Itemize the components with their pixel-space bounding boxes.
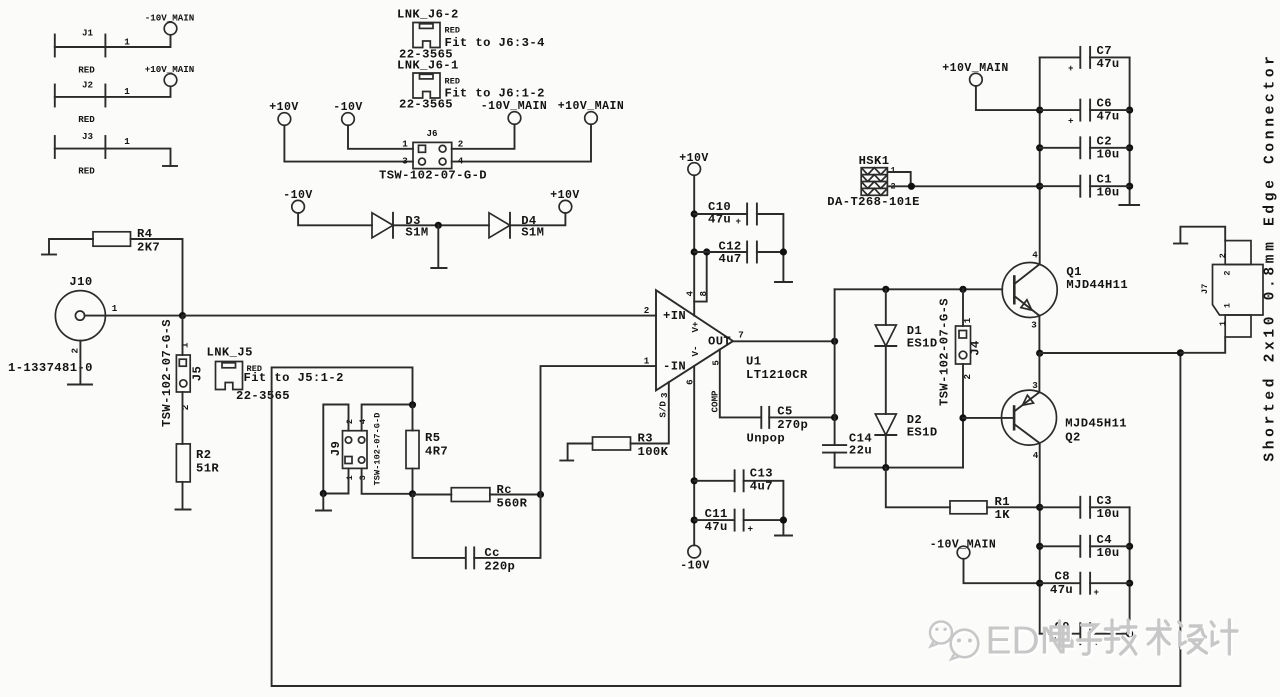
wire R4 left to ground [49, 239, 93, 254]
svg-text:47u: 47u [705, 520, 728, 534]
svg-text:2: 2 [1222, 270, 1232, 275]
svg-text:C8: C8 [1055, 570, 1070, 584]
svg-text:J9: J9 [329, 441, 343, 456]
svg-text:22-3565: 22-3565 [236, 389, 290, 403]
svg-text:1: 1 [124, 136, 130, 147]
svg-text:4R7: 4R7 [425, 445, 448, 459]
svg-text:RED: RED [445, 76, 461, 86]
svg-text:S1M: S1M [405, 226, 428, 240]
capacitor C8 47u [1040, 570, 1130, 598]
svg-text:+: + [736, 216, 742, 227]
ground (C1) [1119, 204, 1139, 206]
svg-text:Unpop: Unpop [747, 432, 786, 446]
svg-text:OUT: OUT [708, 335, 731, 349]
svg-text:4: 4 [358, 419, 368, 424]
diode D1 ES1D [875, 289, 937, 350]
wire J9 pin4 to R5 top [362, 405, 413, 431]
wire right cap bus (top) [1129, 57, 1131, 204]
connector J2 [55, 80, 106, 125]
svg-text:2: 2 [1218, 253, 1228, 258]
ground (J7) [1174, 243, 1187, 245]
wire HSK1 pin1 [887, 172, 910, 186]
diode D2 ES1D [875, 413, 937, 440]
node Rc right / feedback [537, 491, 544, 498]
svg-text:HSK1: HSK1 [859, 154, 890, 168]
svg-text:4: 4 [1033, 450, 1039, 461]
node J4 top [959, 286, 966, 293]
wire HSK1 pin2 [887, 185, 1039, 187]
svg-text:2K7: 2K7 [137, 241, 160, 255]
wire Cc right to node [474, 495, 540, 558]
node R5 top [409, 401, 416, 408]
svg-text:C5: C5 [777, 405, 792, 419]
connector J3 [55, 131, 106, 177]
svg-text:47u: 47u [1050, 583, 1073, 597]
svg-text:51R: 51R [196, 462, 219, 476]
wire R5 bottom to Rc [413, 494, 452, 496]
wire +IN net [183, 315, 657, 317]
node R5 bottom [409, 490, 416, 497]
svg-text:C11: C11 [705, 507, 728, 521]
svg-text:C4: C4 [1097, 533, 1112, 547]
capacitor C5 270p Unpop [747, 405, 809, 446]
svg-text:47u: 47u [1097, 110, 1120, 124]
svg-text:1: 1 [124, 86, 130, 97]
wire R5 vertical [412, 405, 414, 494]
svg-text:TSW-102-07-G-S: TSW-102-07-G-S [160, 319, 174, 427]
node J9 ground junction [320, 490, 327, 497]
svg-text:100K: 100K [638, 445, 669, 459]
svg-text:47u: 47u [1097, 57, 1120, 71]
wire Q2 collector to node [1038, 353, 1040, 392]
svg-text:RED: RED [78, 166, 95, 177]
wire node A to J5 pin1 [182, 316, 184, 355]
wire output node to J7 [1040, 352, 1181, 354]
resistor R5 4R7 [406, 431, 448, 469]
svg-text:LT1210CR: LT1210CR [746, 368, 808, 382]
node C8 right [1126, 580, 1133, 587]
wire J6 pin1 to -10V [348, 125, 413, 149]
svg-text:+10V_MAIN: +10V_MAIN [942, 62, 1009, 75]
svg-text:-10V_MAIN: -10V_MAIN [145, 13, 195, 24]
capacitor C13 4u7 [694, 467, 773, 494]
header J5 TSW-102-07-G-S [160, 319, 205, 427]
wire D4 cathode to +10V [510, 213, 565, 225]
resistor R2 51R [176, 444, 219, 482]
power port -10V (J6 pin1) [333, 101, 363, 125]
svg-text:1: 1 [962, 317, 973, 323]
resistor R1 1K [950, 495, 1010, 522]
wire pin8 V+ [694, 252, 707, 302]
svg-text:R5: R5 [425, 431, 440, 445]
ground (J10) [68, 384, 92, 386]
wire output top rail to Q1 base [835, 288, 1003, 290]
svg-text:C1: C1 [1097, 173, 1112, 187]
wire J2 pin 1 [55, 86, 171, 97]
node C12 left pin4 [691, 248, 698, 255]
wire Q2 base [963, 417, 1014, 419]
node R1/C3 [1036, 504, 1043, 511]
svg-text:U1: U1 [746, 355, 761, 369]
power port -10V_MAIN (J1) [145, 13, 195, 35]
svg-text:1: 1 [1222, 303, 1232, 308]
svg-text:Fit to J6:1-2: Fit to J6:1-2 [445, 87, 545, 101]
capacitor C4 10u [1040, 533, 1130, 560]
node C1 left [1036, 183, 1043, 190]
svg-text:RED: RED [78, 65, 95, 76]
header J9 TSW-102-07-G-D [329, 413, 383, 486]
svg-text:2: 2 [345, 419, 355, 424]
node D3/D4 junction [435, 222, 442, 229]
op-amp U1 LT1210CR [656, 290, 808, 390]
svg-text:+10V_MAIN: +10V_MAIN [145, 64, 195, 75]
wire output bus vertical [834, 289, 836, 467]
svg-text:10u: 10u [1097, 546, 1120, 560]
wire pin5 COMP [720, 350, 761, 418]
wire J7 pin1 to output [1180, 337, 1225, 353]
node C8 left [1036, 580, 1043, 587]
svg-text:7: 7 [738, 330, 744, 341]
ground (J3) [163, 165, 177, 167]
wire -10V to D3 anode [298, 213, 372, 225]
node C4 right [1126, 543, 1133, 550]
svg-text:+10V: +10V [269, 101, 299, 114]
wire J4 pin1 [962, 289, 964, 326]
wire J10 pin2 to ground [79, 341, 81, 384]
svg-text:3: 3 [1032, 380, 1038, 391]
svg-text:R3: R3 [638, 432, 653, 446]
svg-text:-10V_MAIN: -10V_MAIN [481, 100, 548, 113]
node C1 right [1126, 183, 1133, 190]
wire left cap bus (top) [1039, 57, 1041, 264]
wire C11 right to ground [744, 520, 784, 535]
node D1 top [882, 286, 889, 293]
node C12 left pin8 [703, 248, 710, 255]
svg-text:3: 3 [358, 475, 368, 480]
svg-text:+10V_MAIN: +10V_MAIN [558, 100, 625, 113]
resistor R4 2K7 [93, 227, 160, 255]
diode D4 S1M [489, 213, 544, 240]
connector J1 [55, 28, 106, 76]
svg-text:TSW-102-07-G-D: TSW-102-07-G-D [379, 168, 487, 182]
wire -10V_MAIN to C8 row [964, 559, 1040, 583]
svg-text:1K: 1K [995, 508, 1011, 522]
wire Q2 emitter down bus [1039, 443, 1041, 634]
wire C12 right to ground [757, 252, 784, 282]
ground (C11) [775, 535, 792, 537]
svg-text:-10V: -10V [333, 101, 363, 114]
svg-text:ES1D: ES1D [907, 426, 938, 440]
wire R3 left to ground [568, 444, 593, 461]
capacitor C12 4u7 [719, 240, 757, 267]
power port +10V (D4) [550, 189, 580, 213]
svg-text:Q1: Q1 [1066, 265, 1081, 279]
svg-text:TSW-102-07-G-D: TSW-102-07-G-D [373, 413, 383, 486]
header J4 TSW-102-07-G-S [938, 298, 983, 406]
svg-text:4: 4 [458, 155, 464, 166]
capacitor C9 47u [1040, 620, 1130, 648]
transistor Q1 MJD44H11 [1002, 250, 1128, 331]
wire J9 pin2 to ground node [323, 405, 348, 494]
wire feedback loop left [272, 353, 1181, 686]
wire Q1 emitter to node [1038, 316, 1040, 354]
wire J6 pin3 to +10V [284, 125, 413, 166]
power port +10V_MAIN (J2) [145, 64, 195, 86]
svg-text:J7: J7 [1200, 284, 1210, 294]
svg-text:1: 1 [124, 36, 130, 47]
svg-text:J10: J10 [69, 275, 92, 289]
svg-text:2: 2 [644, 305, 650, 316]
power port -10V_MAIN (J6 pin2) [481, 100, 548, 124]
capacitor C10 47u [694, 200, 757, 227]
node C12 right [780, 248, 787, 255]
svg-text:47u: 47u [708, 213, 731, 227]
wire J7 pin2 to ground [1180, 227, 1225, 243]
wire R1 right [987, 506, 1040, 508]
node C10 left [691, 210, 698, 217]
svg-text:+: + [748, 524, 754, 535]
node C2 right [1126, 144, 1133, 151]
svg-text:2: 2 [458, 138, 464, 149]
wire pin6 V- [693, 366, 695, 545]
power port +10V_MAIN (J6 pin4) [558, 100, 625, 124]
wire J6 pin2 to -10V_MAIN [452, 124, 515, 149]
wire R1 left [886, 468, 950, 508]
svg-text:-10V_MAIN: -10V_MAIN [930, 539, 997, 552]
svg-text:Fit to J6:3-4: Fit to J6:3-4 [445, 36, 545, 50]
node OUT [831, 338, 838, 345]
svg-text:Shorted 2x10 0.8mm Edge Connec: Shorted 2x10 0.8mm Edge Connector [1263, 52, 1279, 461]
svg-text:LNK_J5: LNK_J5 [207, 346, 253, 360]
svg-text:COMP: COMP [709, 390, 720, 413]
svg-text:1: 1 [644, 356, 650, 367]
svg-text:C6: C6 [1097, 97, 1112, 111]
node J4 bottom / Q2 base [959, 414, 966, 421]
capacitor C1 10u [1040, 173, 1130, 200]
capacitor C3 10u [1040, 494, 1130, 521]
wire J5 pin2 to R2 [182, 392, 184, 444]
power port +10V (J6 pin3) [269, 101, 299, 125]
svg-text:S1M: S1M [521, 226, 544, 240]
svg-text:DA-T268-101E: DA-T268-101E [827, 195, 920, 209]
svg-text:1: 1 [891, 166, 896, 176]
wire C13 right [744, 481, 784, 520]
wire D2 to bottom rail [885, 435, 887, 468]
node HSK1 [908, 183, 915, 190]
wire J10 pin1 to node A [85, 315, 183, 317]
node C11 right [780, 517, 787, 524]
ground (J9) [316, 494, 331, 511]
node C2 left [1036, 144, 1043, 151]
wire D1 to D2 [885, 346, 887, 414]
heatsink HSK1 DA-T268-101E [827, 154, 920, 209]
svg-text:C13: C13 [750, 467, 773, 481]
svg-text:+IN: +IN [663, 309, 686, 323]
power port -10V_MAIN (bottom) [930, 539, 997, 559]
node A input junction [179, 312, 186, 319]
ground (R3) [560, 460, 573, 462]
wire feedback node to -IN [541, 366, 657, 494]
node C13 left [691, 477, 698, 484]
diode D3 S1M [372, 213, 429, 240]
svg-text:-IN: -IN [663, 360, 686, 374]
svg-text:Q2: Q2 [1065, 431, 1080, 445]
wire R2 to ground [182, 482, 184, 509]
node J7 branch [1177, 349, 1184, 356]
capacitor C6 47u [1040, 97, 1130, 127]
svg-text:-10V: -10V [283, 189, 313, 202]
svg-text:RED: RED [78, 114, 95, 125]
svg-text:R2: R2 [196, 448, 211, 462]
capacitor C14 22u [823, 432, 872, 458]
svg-text:2: 2 [70, 348, 81, 354]
wire C5 right to output bus [769, 416, 834, 418]
capacitor Cc 220p [466, 546, 515, 574]
node C6 left [1036, 107, 1043, 114]
jumper shunt LNK_J5 [207, 346, 344, 404]
wire J1 pin 1 [55, 35, 171, 47]
svg-text:560R: 560R [497, 497, 528, 511]
svg-text:1: 1 [180, 342, 191, 348]
wire pin3 S/D to R3 [631, 382, 669, 443]
svg-text:1: 1 [1218, 321, 1228, 326]
svg-text:+: + [1068, 116, 1074, 127]
svg-text:LNK_J6-1: LNK_J6-1 [397, 59, 459, 73]
svg-text:S/D: S/D [658, 401, 669, 418]
ground (D3/D4) [431, 225, 446, 268]
svg-text:+: + [1068, 63, 1074, 74]
svg-text:3: 3 [1031, 320, 1037, 331]
power port +10V_MAIN (top right) [942, 62, 1009, 86]
svg-text:V-: V- [690, 345, 701, 356]
wire +10V_MAIN to bus [976, 86, 1040, 110]
svg-text:C7: C7 [1097, 44, 1112, 58]
power port -10V (U1) [680, 545, 710, 572]
svg-text:+: + [1094, 587, 1100, 598]
svg-text:LNK_J6-2: LNK_J6-2 [397, 8, 459, 22]
svg-text:22u: 22u [849, 444, 872, 458]
svg-text:TSW-102-07-G-S: TSW-102-07-G-S [938, 298, 952, 406]
capacitor C7 47u [1040, 44, 1130, 74]
wire J4 pin2 down [962, 364, 964, 468]
svg-text:10u: 10u [1097, 507, 1120, 521]
transistor Q2 MJD45H11 [1002, 380, 1128, 461]
svg-text:+10V: +10V [679, 152, 709, 165]
node C5 right [831, 414, 838, 421]
svg-text:C2: C2 [1097, 134, 1112, 148]
wire R4 right to node A [131, 239, 183, 316]
svg-text:J6: J6 [426, 128, 437, 139]
wire J6 pin4 to +10V_MAIN [452, 124, 591, 166]
edge connector J7 [1200, 241, 1263, 337]
svg-text:J2: J2 [82, 80, 93, 91]
wire right cap bus (bottom) [1129, 507, 1131, 633]
wire OUT pin7 [733, 340, 835, 342]
node C4 left [1036, 543, 1043, 550]
svg-text:3: 3 [402, 155, 408, 166]
svg-text:-10V: -10V [680, 560, 710, 573]
svg-text:1: 1 [112, 303, 118, 314]
svg-text:270p: 270p [777, 418, 808, 432]
svg-text:4u7: 4u7 [719, 252, 742, 266]
svg-text:V+: V+ [690, 321, 701, 333]
svg-text:J4: J4 [969, 340, 983, 355]
resistor R3 100K [593, 432, 669, 460]
svg-text:10u: 10u [1097, 186, 1120, 200]
wire output bottom rail [835, 467, 963, 469]
coax connector J10 1-1337481-0 [8, 275, 118, 375]
svg-text:Fit to J5:1-2: Fit to J5:1-2 [244, 371, 344, 385]
resistor Rc 560R [451, 483, 527, 511]
header J6 TSW-102-07-G-D [379, 128, 487, 182]
svg-text:J1: J1 [82, 28, 94, 39]
svg-text:220p: 220p [484, 560, 515, 574]
capacitor C2 10u [1040, 134, 1130, 161]
svg-text:+10V: +10V [550, 189, 580, 202]
svg-text:RED: RED [445, 26, 461, 36]
svg-text:1: 1 [345, 475, 355, 480]
svg-text:1: 1 [402, 138, 408, 149]
wire pin4 V+ [693, 175, 695, 315]
svg-text:MJD44H11: MJD44H11 [1066, 278, 1128, 292]
wire Rc right to node [490, 494, 541, 496]
capacitor C11 47u [694, 507, 753, 535]
ground (C12) [775, 281, 792, 283]
node C9 right [1126, 630, 1133, 637]
wire J3 pin 1 [55, 136, 171, 166]
jumper shunt LNK_J6-1 [397, 59, 545, 112]
ground (R4) [42, 254, 56, 256]
wire J9 pin3 to R5 bottom [362, 468, 413, 493]
watermark EDN logo and text [932, 622, 1239, 665]
svg-text:10u: 10u [1097, 147, 1120, 161]
svg-text:22-3565: 22-3565 [399, 98, 453, 112]
svg-text:4: 4 [1032, 250, 1038, 261]
wire D3 cathode to node [393, 224, 489, 226]
svg-text:C3: C3 [1097, 494, 1112, 508]
node C6 right [1126, 107, 1133, 114]
svg-text:ES1D: ES1D [907, 337, 938, 351]
ground (R2) [176, 509, 191, 511]
wire Cc branch left [413, 494, 466, 558]
node D2 bottom [882, 464, 889, 471]
wire J9 pin1 to ground node [323, 468, 348, 493]
svg-text:J5: J5 [191, 366, 205, 381]
power port -10V (D3) [283, 189, 313, 213]
jumper shunt LNK_J6-2 [397, 8, 545, 62]
power port +10V (U1) [679, 152, 709, 175]
node C11 left [691, 517, 698, 524]
node output Q1/Q2 [1036, 350, 1043, 357]
wire C10 right [757, 214, 784, 252]
svg-text:MJD45H11: MJD45H11 [1065, 417, 1127, 431]
svg-text:J3: J3 [82, 131, 94, 142]
wire C12 left [694, 251, 746, 253]
